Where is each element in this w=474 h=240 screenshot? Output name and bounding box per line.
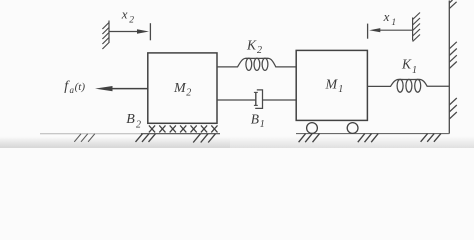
svg-text:1: 1 [260, 119, 265, 130]
mass M1 box [296, 50, 367, 120]
spring K1 coil loop 1 [397, 79, 403, 92]
svg-text:K: K [246, 38, 257, 53]
damper B1 piston [255, 92, 257, 105]
x1 tick [367, 24, 369, 39]
ground hatch group under M1 right [358, 134, 378, 143]
x1 reference wall [413, 13, 420, 42]
svg-text:1: 1 [338, 84, 343, 95]
spring K2 coil loop 1 [246, 58, 252, 70]
svg-text:x: x [121, 7, 128, 22]
damper B1 rod left [217, 99, 256, 101]
spring K1 coil loop 2 [406, 79, 412, 92]
x1 axis line [380, 29, 413, 31]
svg-text:2: 2 [186, 88, 191, 99]
ground line under M1 [296, 133, 449, 135]
svg-text:(t): (t) [75, 81, 86, 93]
spring K1 coil loop 3 [415, 79, 421, 92]
force arrow [110, 88, 148, 90]
ground line under M2 [141, 133, 220, 135]
right wall hatch lower [449, 98, 457, 119]
svg-text:x: x [383, 9, 390, 24]
right wall [448, 1, 450, 134]
ground hatch group under M2 left [136, 134, 156, 142]
svg-text:2: 2 [136, 119, 141, 130]
ground hatch group near wall [421, 134, 441, 142]
svg-text:2: 2 [257, 45, 262, 56]
x2 arrowhead [137, 29, 149, 33]
svg-text:B: B [251, 112, 259, 127]
damper B1 rod right [263, 99, 296, 101]
roller right under M1 [347, 123, 358, 134]
svg-text:1: 1 [412, 65, 417, 76]
damper B1 cylinder cup [255, 90, 262, 109]
spring K2 coil loop 2 [254, 58, 260, 70]
spring K2 coil loop 3 [262, 58, 268, 70]
mass M2 box [148, 53, 217, 123]
friction B2 x-marks under M2 [149, 125, 218, 132]
ground line left (faint far left) [40, 133, 141, 135]
svg-text:M: M [173, 81, 187, 96]
roller left under M1 [307, 123, 318, 134]
svg-text:M: M [325, 77, 339, 92]
ground hatch group under M1 left [299, 134, 320, 143]
svg-text:1: 1 [391, 18, 396, 28]
right wall hatch top [449, 0, 456, 9]
x2 tick [149, 23, 151, 40]
x2 axis line [109, 31, 137, 33]
svg-text:K: K [401, 56, 412, 71]
x1 arrowhead [369, 28, 380, 32]
svg-text:B: B [126, 112, 135, 127]
ground hatch group under M2 right [193, 134, 215, 143]
svg-text:2: 2 [129, 16, 134, 26]
x2 reference wall [102, 21, 109, 50]
spring K2 backbone [217, 58, 296, 67]
ground hatch group far left [74, 134, 95, 142]
right wall hatch mid [449, 42, 457, 69]
spring K1 backbone [367, 79, 449, 86]
